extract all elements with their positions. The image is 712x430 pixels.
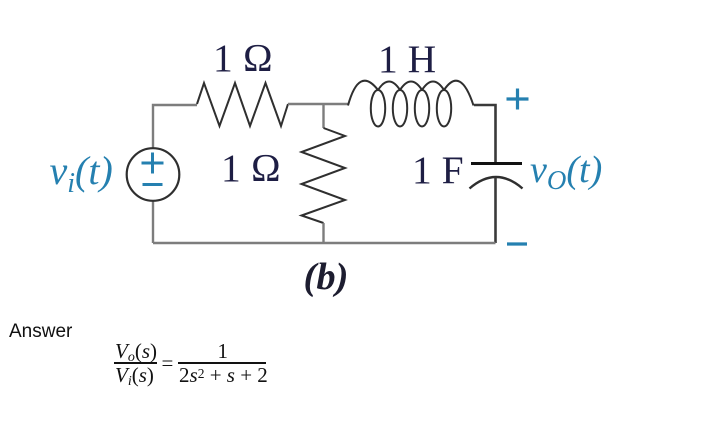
formula: transfer function Vo(s)/Vi(s) = 1/(2s^2+s+2) (0, 0, 1, 1)
wire: between R1 and node A / inductor (288, 103, 349, 105)
value label 1-ohm for R1 (213, 35, 273, 81)
capacitor C1 bottom curved plate (470, 177, 523, 189)
value label 1-ohm for R2 (221, 145, 281, 191)
wire: capacitor to bottom-right corner (494, 178, 497, 244)
minus sign output polarity (507, 242, 527, 245)
resistor R2 1-ohm vertical zigzag (302, 128, 346, 223)
caption (b) (304, 255, 349, 299)
wire: R2 bottom to bottom rail (322, 223, 324, 243)
wire: bottom rail (153, 242, 496, 244)
resistor R1 1-ohm horizontal zigzag (197, 83, 288, 126)
denominator 2s^2+s+2 (179, 365, 268, 386)
numerator 1 (218, 341, 229, 362)
voltage source V1 circle (127, 148, 180, 201)
fraction bar 1 (114, 362, 157, 364)
value label 1 H for L1 (378, 36, 436, 82)
plus sign output polarity (507, 89, 529, 110)
equals sign (162, 353, 174, 374)
capacitor C1 top plate (471, 162, 522, 165)
wire: top-left horizontal from source top corner to resistor R1 (153, 105, 197, 148)
source label vi(t) (50, 147, 113, 200)
numerator Vo(s) (115, 341, 157, 368)
Answer heading (9, 321, 72, 343)
voltage source plus sign (142, 153, 164, 174)
wire: source bottom to bottom rail (152, 201, 154, 243)
inductor L1 1-henry coil (348, 81, 474, 127)
wire: inductor to top-right corner down to capacitor top plate (474, 105, 496, 163)
denominator Vi(s) (115, 365, 154, 392)
node A: junction top middle (322, 105, 324, 128)
value label 1 F for C1 (412, 147, 464, 193)
output label vo(t) (530, 148, 602, 196)
voltage source minus sign (143, 183, 163, 186)
fraction bar 2 (178, 362, 267, 364)
